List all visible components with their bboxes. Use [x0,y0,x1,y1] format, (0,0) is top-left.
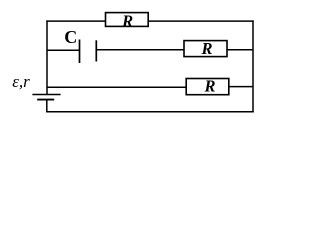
battery short plate negative [37,99,54,101]
wire top right horizontal [148,20,254,22]
wire capacitor branch right [227,49,253,51]
capacitor C1 right plate [95,40,97,61]
wire capacitor branch left [47,49,80,51]
resistor R1 top box [106,13,149,27]
wire left rail vertical [46,20,48,94]
resistor R3 lower box [186,79,229,95]
wire battery bottom stub [46,100,48,112]
wire top left horizontal [46,20,105,22]
battery long plate positive [32,94,60,96]
capacitor C1 left plate [79,40,81,64]
svg-text:R: R [200,39,212,58]
svg-text:ε,r: ε,r [12,72,30,91]
svg-text:R: R [121,11,133,30]
svg-text:C: C [64,27,77,47]
wire capacitor branch middle [96,49,184,51]
wire bottom horizontal [46,111,254,113]
svg-text:R: R [203,77,215,96]
wire right rail vertical [252,20,254,112]
wire third branch right [229,86,253,88]
resistor R2 middle box [184,41,227,57]
wire third branch left [47,86,186,88]
